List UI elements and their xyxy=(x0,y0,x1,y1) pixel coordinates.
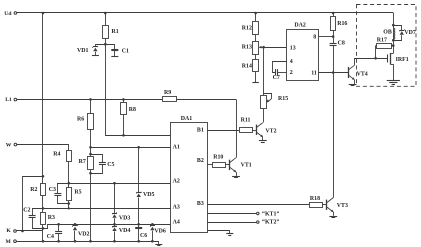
op-amp comparator DA1 xyxy=(171,116,208,232)
svg-text:R10: R10 xyxy=(213,155,223,161)
ground VT4 xyxy=(349,80,357,86)
potentiometer R15 xyxy=(261,94,289,109)
wire VT2 collector to R15 xyxy=(263,109,265,123)
ground M rail end xyxy=(155,245,162,246)
zener diode VD3 xyxy=(112,182,130,224)
wire R3 bottom to M rail xyxy=(42,228,45,242)
wire R1 node down to DA1 upper pin xyxy=(106,44,172,135)
svg-text:R15: R15 xyxy=(278,96,288,102)
wire KT2 output xyxy=(207,219,279,225)
zener diode VD4 xyxy=(112,223,130,243)
svg-text:IRF1: IRF1 xyxy=(396,57,409,63)
svg-text:R4: R4 xyxy=(53,152,60,158)
terminal W xyxy=(6,143,17,149)
ground IRF1 source xyxy=(387,81,400,85)
terminal K xyxy=(6,228,16,234)
svg-text:R14: R14 xyxy=(242,63,252,69)
resistor R4 xyxy=(53,151,71,184)
wire M rail xyxy=(16,242,158,244)
resistor R6 xyxy=(77,98,94,147)
wire K branch up to R2 top xyxy=(23,177,44,232)
node R1 bottom xyxy=(104,43,107,46)
svg-text:R17: R17 xyxy=(377,38,387,44)
wire R10 to VT1 base xyxy=(225,164,230,166)
node OB bottom xyxy=(392,39,395,42)
svg-text:8: 8 xyxy=(313,35,316,41)
svg-text:C5: C5 xyxy=(107,162,114,168)
svg-text:“KT1”: “KT1” xyxy=(262,212,279,218)
svg-text:R16: R16 xyxy=(337,21,347,27)
capacitor C4 xyxy=(47,223,62,243)
svg-text:C4: C4 xyxy=(47,234,54,240)
svg-text:VD6: VD6 xyxy=(154,229,166,235)
svg-text:VT4: VT4 xyxy=(357,71,368,77)
svg-text:C8: C8 xyxy=(338,41,345,47)
terminal M xyxy=(6,239,17,245)
wire A3 net xyxy=(32,208,171,210)
transistor VT4 xyxy=(348,65,368,80)
svg-text:R8: R8 xyxy=(129,107,136,113)
svg-text:OB: OB xyxy=(383,30,392,36)
svg-text:R7: R7 xyxy=(79,159,86,165)
svg-text:R1: R1 xyxy=(112,29,119,35)
capacitor C7 and pin4 link xyxy=(273,62,287,81)
svg-text:R6: R6 xyxy=(77,117,84,123)
dashed enclosure OB unit xyxy=(357,5,417,87)
wire R18 to VT3 base xyxy=(322,204,327,206)
wire B2 xyxy=(207,164,212,166)
svg-text:C1: C1 xyxy=(122,48,129,54)
svg-text:B1: B1 xyxy=(197,128,204,134)
svg-text:VD4: VD4 xyxy=(119,228,131,234)
svg-text:A1: A1 xyxy=(173,145,180,151)
zener diode VD2 xyxy=(73,223,90,243)
resistor R5 xyxy=(67,182,82,210)
svg-text:R3: R3 xyxy=(48,215,55,221)
zener diode VD5 xyxy=(136,146,154,224)
wire K xyxy=(16,230,43,233)
svg-text:A2: A2 xyxy=(173,178,180,184)
svg-text:2: 2 xyxy=(290,70,293,76)
potentiometer R13 xyxy=(242,34,264,54)
wire KT1 output xyxy=(207,212,279,218)
svg-text:B3: B3 xyxy=(197,201,204,207)
svg-text:VD1: VD1 xyxy=(77,48,89,54)
resistor R3 xyxy=(41,208,56,228)
svg-text:Ud: Ud xyxy=(4,11,12,17)
svg-text:VD3: VD3 xyxy=(119,215,131,221)
resistor R11 xyxy=(240,118,253,133)
svg-text:R9: R9 xyxy=(164,90,171,96)
inductor OB field winding xyxy=(383,25,395,40)
resistor R16 xyxy=(331,12,348,37)
svg-text:K: K xyxy=(6,228,11,234)
transistor VT3 xyxy=(327,198,348,213)
svg-text:“KT2”: “KT2” xyxy=(262,219,279,225)
wire R13 wiper to DA2 pin13 xyxy=(262,46,286,49)
svg-text:VT1: VT1 xyxy=(241,163,252,169)
wire C8 node down to VT3 collector xyxy=(333,73,335,198)
wire R9 to VT1 collector xyxy=(236,99,238,157)
wire OB to drain xyxy=(392,40,395,53)
svg-text:B2: B2 xyxy=(197,158,204,164)
svg-text:DA2: DA2 xyxy=(294,22,306,28)
transistor VT1 xyxy=(230,158,252,173)
transistor VT2 xyxy=(257,123,277,138)
wire W xyxy=(17,145,69,151)
svg-text:W: W xyxy=(6,143,12,149)
wire VD1-C1 node xyxy=(95,44,114,46)
svg-text:VT2: VT2 xyxy=(265,128,276,134)
wire L1 rail right xyxy=(176,99,236,101)
resistor R17 xyxy=(376,38,394,59)
mosfet IRF1 xyxy=(388,53,409,80)
svg-text:R5: R5 xyxy=(74,190,81,196)
svg-text:VD2: VD2 xyxy=(78,232,90,238)
flyback diode VD7 xyxy=(393,26,416,41)
svg-text:VD7: VD7 xyxy=(404,30,416,36)
svg-text:R11: R11 xyxy=(241,118,251,124)
ground VT3 xyxy=(329,212,337,218)
zener diode VD1 xyxy=(77,44,99,56)
resistor R18 xyxy=(310,196,323,207)
wire VT4 collector to gate node xyxy=(355,57,388,65)
resistor R7 xyxy=(79,147,94,174)
svg-text:R13: R13 xyxy=(242,45,252,51)
resistor R12 xyxy=(242,12,259,35)
svg-text:A4: A4 xyxy=(173,219,180,225)
capacitor C8 xyxy=(330,37,345,73)
wire R11 to VT2 base xyxy=(252,130,256,132)
resistor R9 xyxy=(163,90,177,101)
svg-text:C7: C7 xyxy=(273,75,280,81)
svg-text:11: 11 xyxy=(311,70,317,76)
svg-text:C3: C3 xyxy=(49,187,56,193)
resistor R8 xyxy=(121,98,137,137)
zener diode VD6 xyxy=(150,223,166,243)
wire top rail corner down to OB xyxy=(392,13,395,26)
svg-text:A3: A3 xyxy=(173,204,180,210)
wire B1 xyxy=(207,130,239,132)
resistor R14 xyxy=(242,54,259,83)
wire wiper down to R15 xyxy=(263,47,265,95)
wire DA2 pin8 xyxy=(319,35,335,38)
terminal Ud xyxy=(4,11,16,17)
wire A1 net xyxy=(89,146,171,149)
wire L1 rail left xyxy=(17,99,162,101)
svg-text:VT3: VT3 xyxy=(337,203,348,209)
resistor R1 xyxy=(103,12,119,45)
node R2 bottom / A3 xyxy=(42,207,45,210)
svg-text:R18: R18 xyxy=(310,196,320,202)
wire R7 bottom to M rail xyxy=(89,173,92,242)
svg-text:13: 13 xyxy=(290,46,296,52)
capacitor C5 xyxy=(91,155,115,174)
capacitor C2 xyxy=(23,208,43,229)
wire A4 net xyxy=(43,225,171,229)
svg-text:R12: R12 xyxy=(242,25,252,31)
svg-text:C6: C6 xyxy=(140,233,147,239)
capacitor C6 xyxy=(135,223,147,243)
wire Ud to R2 xyxy=(42,12,45,178)
svg-text:L1: L1 xyxy=(5,97,12,103)
svg-text:M: M xyxy=(6,239,12,245)
resistor R2 xyxy=(30,176,45,208)
ground VT1 xyxy=(232,172,240,177)
wire A2 net xyxy=(58,183,171,185)
capacitor C3 xyxy=(49,184,69,204)
wire Ud rail xyxy=(17,12,394,14)
wire B3 xyxy=(207,204,309,206)
svg-text:4: 4 xyxy=(290,59,293,65)
resistor R10 xyxy=(213,155,226,168)
svg-text:R2: R2 xyxy=(30,187,37,193)
capacitor C1 xyxy=(111,44,129,56)
terminal L1 xyxy=(5,97,16,103)
ground DA1 xyxy=(207,231,233,236)
svg-text:VD5: VD5 xyxy=(143,192,155,198)
ground VT2 xyxy=(259,137,267,143)
svg-text:DA1: DA1 xyxy=(181,116,193,122)
wire DA2 pin11 to VT4 base xyxy=(319,71,349,74)
node R3 bottom xyxy=(42,227,45,230)
svg-text:C2: C2 xyxy=(23,208,30,214)
timer DA2 xyxy=(287,22,319,80)
